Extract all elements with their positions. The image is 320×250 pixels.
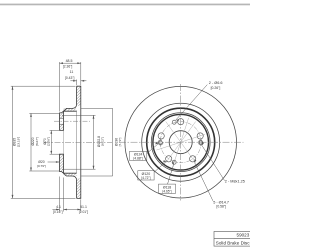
dim 48.5 top [59, 62, 61, 112]
hat bottom profile [60, 154, 77, 179]
band left edge bottom [76, 179, 78, 198]
section dim texts [53, 59, 88, 214]
svg-text:11: 11 [70, 70, 74, 74]
mounting wall hatched top [60, 111, 64, 118]
svg-text:[4.88"]: [4.88"] [134, 157, 143, 161]
svg-text:2 - M8x1.25: 2 - M8x1.25 [225, 179, 245, 183]
dim Ø220 [29, 112, 59, 114]
boxed label Ø118 [4.65"] frame [159, 184, 176, 193]
svg-text:[2.01"]: [2.01"] [79, 210, 89, 214]
svg-text:[13.19"]: [13.19"] [16, 137, 20, 148]
centerline horizontal section [44, 141, 112, 143]
svg-text:2 - Ø6.6: 2 - Ø6.6 [209, 81, 223, 85]
band inner edge (visible behind) [76, 111, 78, 173]
center hole [169, 131, 192, 154]
leader box3 [168, 165, 174, 184]
bottom dims [59, 177, 61, 212]
svg-text:[7.72"]: [7.72"] [118, 137, 122, 146]
hat top profile [60, 105, 77, 130]
band hatched top [77, 86, 81, 106]
circle r29.4 [151, 113, 210, 172]
svg-text:59023: 59023 [237, 233, 250, 238]
boxed label Ø124 [4.88"] frame [129, 152, 146, 161]
band hatched bottom [77, 178, 81, 198]
leader box1 [147, 144, 159, 154]
lug hole centerline in section [54, 120, 90, 122]
outer circle [125, 86, 237, 198]
svg-text:[0.43"]: [0.43"] [65, 76, 75, 80]
2 x M8 at 0/180 [158, 140, 204, 145]
svg-text:[4.65"]: [4.65"] [162, 189, 171, 193]
leader Ø20 [48, 161, 60, 163]
svg-text:51.1: 51.1 [80, 205, 87, 209]
svg-text:[0.26"]: [0.26"] [211, 86, 221, 90]
mounting wall hatched bottom [60, 154, 64, 173]
thick circle r34 [147, 108, 215, 176]
title block divider [214, 238, 254, 240]
leader 2-Ø6.6 [176, 85, 207, 120]
band left edge top [76, 86, 78, 105]
svg-text:48.5: 48.5 [66, 59, 73, 63]
bolt circle dash-dot [160, 122, 201, 163]
lug holes 5 x Ø14.7 at r20.5: angles -90,-18,54,126,198 [158, 119, 203, 162]
boxed label Ø120 [4.72"] frame [138, 171, 154, 180]
svg-text:[0.58"]: [0.58"] [216, 205, 226, 209]
band outline [77, 86, 81, 198]
dim Ø152.8 [62, 114, 96, 116]
hat wall hatched top horizontal [64, 108, 77, 111]
svg-text:4.1: 4.1 [56, 205, 61, 209]
circle r39 [142, 103, 220, 181]
border frame top [0, 4, 250, 6]
dim Ø70 [50, 129, 60, 131]
leader 5-Ø14.7 [195, 163, 213, 201]
svg-text:Solid Brake Disc: Solid Brake Disc [216, 240, 250, 245]
boxed labels [129, 152, 175, 194]
svg-text:[2.36"]: [2.36"] [63, 64, 73, 68]
svg-text:[0.79"]: [0.79"] [37, 164, 46, 168]
leader box2 [154, 161, 166, 172]
title block frame [214, 232, 254, 247]
svg-text:[0.16"]: [0.16"] [53, 210, 63, 214]
dim 11 top [76, 80, 78, 86]
svg-text:[4.72"]: [4.72"] [141, 176, 150, 180]
hat wall hatched bottom horizontal [64, 173, 77, 176]
dim Ø335 left [11, 85, 76, 87]
hat wall edge behind center hole [63, 130, 65, 154]
centerlines front view [119, 84, 244, 201]
thick circle r27.8 [153, 114, 209, 170]
svg-text:[2.76"]: [2.76"] [47, 137, 51, 146]
hat diameter bracket [81, 107, 113, 109]
lug hole lines in wall [60, 118, 64, 124]
radial centerlines [156, 118, 205, 167]
2 x Ø6.6 at ±108 [172, 120, 176, 164]
svg-text:[6.02"]: [6.02"] [101, 137, 105, 146]
callout texts [209, 81, 245, 209]
svg-text:[8.67"]: [8.67"] [35, 137, 39, 146]
leader 2-M8 [202, 145, 225, 180]
